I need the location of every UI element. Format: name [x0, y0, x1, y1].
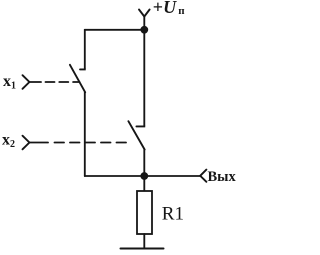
wire: x2 control dashed: [29, 142, 48, 144]
wire: left branch upper: [84, 30, 86, 69]
wire: resistor to ground: [143, 234, 145, 249]
wire: left branch lower: [84, 92, 86, 176]
node: output junction: [140, 172, 148, 180]
switch S2 fixed contact stub: [136, 125, 144, 128]
wire: top horizontal: [85, 29, 145, 31]
svg-text:Вых: Вых: [208, 169, 237, 185]
wire: terminal stem: [143, 17, 145, 30]
input x2 arrow: [23, 136, 30, 150]
wire: x1 control dashed: [29, 81, 41, 83]
wire: right branch upper: [143, 30, 145, 126]
svg-text:R1: R1: [162, 204, 184, 225]
resistor R1 body: [137, 191, 152, 234]
power terminal +Un arrow: [139, 10, 150, 17]
switch S2 blade: [128, 121, 144, 149]
svg-text:x1: x1: [3, 73, 16, 92]
wire: right branch middle: [143, 150, 145, 177]
node: top junction: [140, 26, 148, 34]
switch S1 blade: [70, 65, 85, 93]
ground: [121, 248, 164, 250]
wire: bottom horizontal to output: [85, 175, 200, 177]
switch S1 fixed contact stub: [80, 68, 85, 71]
output arrow Vykh: [200, 170, 206, 182]
wire: output node to resistor: [143, 176, 145, 191]
svg-text:x2: x2: [2, 132, 15, 151]
input x1 arrow: [23, 75, 30, 89]
svg-text:+Uп: +Uп: [153, 0, 185, 17]
